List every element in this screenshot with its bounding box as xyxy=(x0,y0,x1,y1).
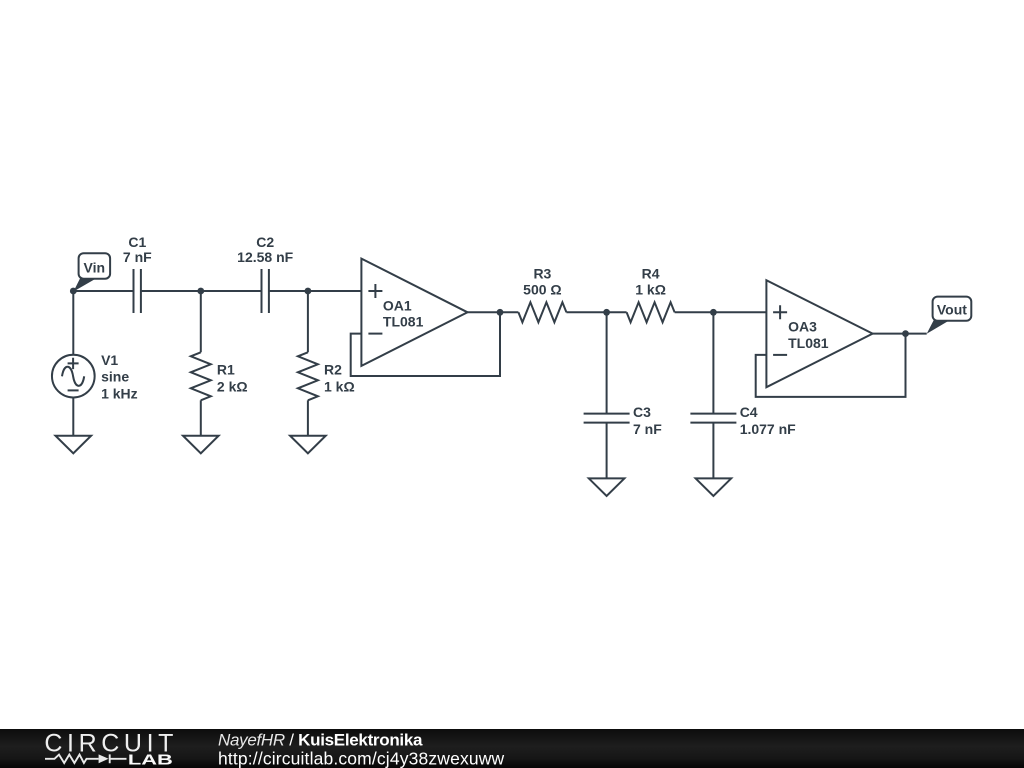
svg-text:7 nF: 7 nF xyxy=(123,249,152,265)
svg-text:TL081: TL081 xyxy=(383,314,424,330)
svg-text:http://circuitlab.com/cj4y38zw: http://circuitlab.com/cj4y38zwexuww xyxy=(218,749,505,768)
capacitor C3 xyxy=(584,414,630,423)
wire V1 bottom lead xyxy=(72,398,74,436)
label R4 designator xyxy=(642,265,660,281)
ground for C4 xyxy=(696,478,732,496)
svg-text:OA1: OA1 xyxy=(383,297,412,313)
node F junction dot xyxy=(710,309,717,316)
svg-text:R1: R1 xyxy=(217,361,235,377)
svg-text:R3: R3 xyxy=(533,265,551,281)
svg-text:12.58 nF: 12.58 nF xyxy=(237,249,293,265)
svg-text:V1: V1 xyxy=(101,352,118,368)
label OA3 part TL081 xyxy=(788,335,829,351)
wire V1 top lead xyxy=(72,291,74,355)
label R4 value 1 kOhm xyxy=(635,281,666,297)
label V1 designator xyxy=(101,352,118,368)
svg-text:1 kΩ: 1 kΩ xyxy=(635,281,666,297)
svg-text:NayefHR / KuisElektronika: NayefHR / KuisElektronika xyxy=(218,730,423,749)
svg-text:Vout: Vout xyxy=(937,302,967,318)
ground for C3 xyxy=(589,478,625,496)
label OA1 part TL081 xyxy=(383,314,424,330)
wire OA1 feedback loop xyxy=(351,312,500,376)
CircuitLab logo wordmark LAB xyxy=(128,753,173,768)
wire OA1 output to R3 xyxy=(468,311,519,313)
wire C4 bottom lead xyxy=(712,423,714,479)
label C4 value 1.077 nF xyxy=(740,421,796,437)
label R3 value 500 Ohm xyxy=(523,281,561,297)
ground for R2 xyxy=(290,436,326,454)
label C3 value 7 nF xyxy=(633,421,662,437)
wire R1 top lead xyxy=(200,291,202,352)
svg-text:1.077 nF: 1.077 nF xyxy=(740,421,796,437)
label R2 value 1 kOhm xyxy=(324,379,355,395)
wire node C to OA1 noninverting input xyxy=(308,290,362,292)
svg-text:Vin: Vin xyxy=(84,259,106,275)
attribution url xyxy=(218,749,505,768)
node B junction dot xyxy=(197,288,204,295)
label Vin text xyxy=(84,259,106,275)
wire node B to C2 xyxy=(201,290,262,292)
resistor R3 xyxy=(518,302,566,322)
label C4 designator xyxy=(740,404,758,420)
wire R2 top lead xyxy=(307,291,309,352)
svg-text:1 kHz: 1 kHz xyxy=(101,385,138,401)
label OA1 designator xyxy=(383,297,412,313)
svg-text:C2: C2 xyxy=(256,234,274,250)
svg-text:2 kΩ: 2 kΩ xyxy=(217,379,248,395)
svg-text:C3: C3 xyxy=(633,404,651,420)
resistor R4 xyxy=(627,302,675,322)
svg-text:R2: R2 xyxy=(324,361,342,377)
label C2 designator xyxy=(256,234,274,250)
flag Vout xyxy=(927,297,972,334)
node E junction dot xyxy=(603,309,610,316)
svg-text:500 Ω: 500 Ω xyxy=(523,281,561,297)
label R3 designator xyxy=(533,265,551,281)
wire C3 top lead xyxy=(606,312,608,413)
op-amp OA3 xyxy=(766,280,872,387)
svg-text:1 kΩ: 1 kΩ xyxy=(324,379,355,395)
wire C2 to node C xyxy=(269,290,308,292)
label OA3 designator xyxy=(788,319,817,335)
ground for V1 xyxy=(56,436,92,454)
ground for R1 xyxy=(183,436,219,454)
wire OA3 output to Vout xyxy=(873,333,927,335)
label R1 value 2 kOhm xyxy=(217,379,248,395)
svg-text:LAB: LAB xyxy=(128,753,173,768)
capacitor C4 xyxy=(690,414,736,423)
node D junction dot xyxy=(497,309,504,316)
label V1 value 1 kHz xyxy=(101,385,138,401)
wire OA3 feedback loop xyxy=(756,334,906,397)
svg-text:TL081: TL081 xyxy=(788,335,829,351)
attribution author and title xyxy=(218,730,423,749)
label C1 value 7 nF xyxy=(123,249,152,265)
wire Vin node to C1 xyxy=(73,290,133,292)
svg-text:sine: sine xyxy=(101,369,129,385)
wire R3 to node E xyxy=(566,311,626,313)
resistor R1 xyxy=(191,352,211,400)
label C3 designator xyxy=(633,404,651,420)
label R1 designator xyxy=(217,361,235,377)
wire C1 to node B xyxy=(141,290,201,292)
svg-text:C1: C1 xyxy=(128,234,146,250)
label C2 value 12.58 nF xyxy=(237,249,293,265)
label R2 designator xyxy=(324,361,342,377)
CircuitLab logo diode symbol xyxy=(99,754,127,763)
svg-text:OA3: OA3 xyxy=(788,319,817,335)
wire C3 bottom lead xyxy=(606,423,608,479)
wire R2 bottom lead xyxy=(307,400,309,435)
op-amp OA1 xyxy=(361,259,467,366)
flag Vin xyxy=(74,253,111,291)
svg-text:C4: C4 xyxy=(740,404,758,420)
wire C4 top lead xyxy=(712,312,714,413)
node G junction dot xyxy=(902,330,909,337)
wire R4 to node F to OA3 xyxy=(675,311,767,313)
voltage source V1 sine xyxy=(52,355,95,398)
CircuitLab logo resistor symbol xyxy=(45,755,99,763)
label C1 designator xyxy=(128,234,146,250)
CircuitLab logo wordmark CIRCUIT xyxy=(44,729,173,757)
resistor R2 xyxy=(298,352,318,400)
capacitor C1 xyxy=(134,269,141,313)
node C junction dot xyxy=(305,288,312,295)
wire R1 bottom lead xyxy=(200,400,202,435)
node A Vin junction dot xyxy=(70,288,77,295)
svg-text:R4: R4 xyxy=(642,265,660,281)
label Vout text xyxy=(937,302,967,318)
svg-text:7 nF: 7 nF xyxy=(633,421,662,437)
capacitor C2 xyxy=(262,269,269,313)
label V1 type sine xyxy=(101,369,129,385)
